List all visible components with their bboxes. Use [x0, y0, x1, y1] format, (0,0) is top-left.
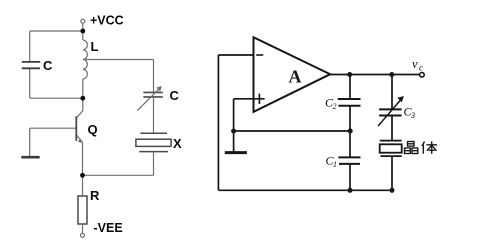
- wire plus vertical: [233, 99, 235, 152]
- wire minus input: [218, 54, 253, 56]
- terminal vc: [420, 73, 425, 78]
- node plus-mid: [231, 129, 236, 134]
- 晶: [408, 142, 415, 147]
- crystal (right) plates: [380, 141, 402, 157]
- wire bottom LC horizontal: [30, 97, 83, 99]
- wire left feedback rail: [217, 55, 219, 190]
- wire top horizontal: [30, 30, 83, 32]
- inductor L rail bottom: [82, 79, 84, 98]
- svg-text:c: c: [419, 63, 423, 73]
- wire varcap-crystal: [391, 116, 393, 141]
- svg-text:3: 3: [410, 111, 415, 120]
- base wire: [30, 127, 76, 129]
- op-amp minus sign: [256, 54, 263, 56]
- svg-text:v: v: [412, 57, 418, 71]
- svg-text:C: C: [170, 88, 180, 103]
- wire C2 bottom to mid: [349, 106, 351, 131]
- inductor L rail top: [82, 31, 84, 40]
- variable capacitor C3 arrow: [378, 100, 400, 126]
- svg-text:A: A: [289, 67, 302, 87]
- capacitor C plates: [22, 61, 40, 63]
- capacitor C2 plates: [338, 99, 361, 106]
- resistor R: [78, 175, 87, 233]
- wire plus input: [234, 98, 254, 100]
- svg-text:1: 1: [333, 160, 337, 169]
- wire left vertical upper: [29, 31, 31, 61]
- wire VCC stub: [82, 23, 84, 31]
- crystal label 晶体 (drawn glyphs): [405, 141, 438, 154]
- svg-text:2: 2: [333, 102, 337, 111]
- node top: [80, 29, 85, 34]
- ground (right): [225, 151, 247, 154]
- 体: [422, 142, 425, 147]
- transistor Q bar: [75, 116, 77, 141]
- node output-C2: [347, 72, 352, 77]
- wire crystal branch top: [391, 75, 393, 110]
- wire crystal to bottom: [153, 152, 155, 176]
- wire C2 top: [349, 75, 351, 99]
- ground (left): [21, 156, 39, 159]
- wire mid node horizontal: [234, 130, 351, 132]
- wire right vertical to varcap: [153, 60, 155, 93]
- svg-text:+VCC: +VCC: [90, 14, 124, 28]
- wire tap to right branch: [86, 59, 154, 61]
- node bottom-crystal: [390, 188, 395, 193]
- wire C1 bottom: [349, 164, 351, 190]
- variable capacitor C (right branch): [143, 92, 163, 97]
- op-amp plus sign: [254, 94, 264, 104]
- wire bottom horizontal to emitter node: [83, 174, 154, 176]
- crystal X: [136, 133, 171, 151]
- svg-text:-VEE: -VEE: [94, 221, 123, 235]
- wire crystal bottom: [391, 156, 393, 190]
- capacitor C1 plates: [338, 157, 360, 164]
- wire varcap to crystal: [153, 97, 155, 133]
- inductor L coil: [83, 40, 87, 79]
- wire bottom rail: [218, 189, 392, 191]
- node emitter/bottom: [80, 173, 85, 178]
- node LC bottom: [80, 96, 85, 101]
- svg-text:C: C: [43, 58, 53, 73]
- wire left vertical lower: [29, 69, 31, 99]
- svg-text:Q: Q: [88, 122, 98, 137]
- node output-crystal: [389, 72, 394, 77]
- transistor emitter arrow: [78, 139, 83, 143]
- variable capacitor C3 plates: [379, 109, 402, 115]
- terminal +VCC: [81, 19, 85, 23]
- emitter wire: [77, 135, 83, 142]
- base left vertical: [29, 128, 31, 156]
- wire C1 top: [349, 131, 351, 157]
- transistor Q: [30, 98, 83, 175]
- node bottom-C1: [348, 188, 353, 193]
- node mid-C2C1: [348, 129, 353, 134]
- terminal -VEE: [81, 233, 85, 237]
- wire output: [330, 74, 419, 76]
- collector wire: [82, 98, 84, 111]
- svg-text:X: X: [173, 136, 182, 151]
- op-amp U A triangle: [254, 37, 331, 112]
- svg-text:L: L: [91, 39, 99, 54]
- svg-text:R: R: [90, 188, 100, 203]
